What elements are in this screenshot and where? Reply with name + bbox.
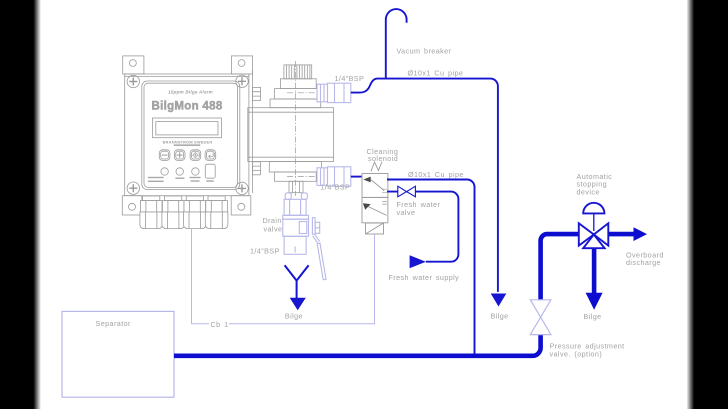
bilge arrow right bbox=[586, 293, 603, 310]
valve box lower bbox=[362, 197, 388, 222]
bracket plate edge bbox=[252, 70, 254, 193]
bottom step 2 bbox=[275, 172, 317, 181]
fresh water supply arrow bbox=[410, 255, 426, 268]
svg-text:Ø10x1 Cu pipe: Ø10x1 Cu pipe bbox=[408, 68, 464, 77]
spring symbol bbox=[371, 162, 382, 172]
svg-text:Bilge: Bilge bbox=[285, 312, 303, 321]
svg-text:Drain: Drain bbox=[263, 216, 282, 225]
LCD display bbox=[153, 118, 222, 138]
bilge arrow mid bbox=[491, 294, 507, 307]
svg-text:valve: valve bbox=[264, 225, 283, 234]
top step 1 bbox=[275, 89, 320, 99]
keypad button minus bbox=[159, 150, 170, 161]
svg-text:valve: valve bbox=[397, 208, 416, 217]
text small subtitle bbox=[174, 144, 201, 146]
svg-text:15ppm Bilge Alarm: 15ppm Bilge Alarm bbox=[168, 90, 213, 95]
bolt block bottom bbox=[253, 162, 261, 175]
svg-text:solenoid: solenoid bbox=[368, 154, 398, 163]
keypad button diamond bbox=[190, 150, 201, 161]
pipe cell bottom to solenoid bbox=[351, 176, 362, 178]
svg-text:Ø10x1 Cu pipe: Ø10x1 Cu pipe bbox=[408, 170, 464, 179]
svg-text:BilgMon 488: BilgMon 488 bbox=[151, 101, 222, 113]
front panel door bbox=[142, 81, 240, 190]
mounting tab top-left bbox=[123, 56, 144, 74]
LED pump bbox=[176, 168, 183, 175]
corner screw bottom-left bbox=[127, 182, 139, 194]
gland 1 bbox=[140, 196, 163, 229]
svg-text:Bilge: Bilge bbox=[491, 312, 509, 321]
bottom neck bbox=[289, 181, 303, 192]
pipe valve down to bilge bbox=[592, 248, 597, 293]
monitor panel texts bbox=[148, 90, 223, 183]
pipe solenoid to sample discharge bbox=[387, 180, 475, 354]
port ticks lower bbox=[382, 201, 387, 204]
svg-text:BRANNSTROM SWEDEN: BRANNSTROM SWEDEN bbox=[163, 139, 213, 144]
svg-text:Separator: Separator bbox=[96, 319, 132, 328]
corner screw top-left bbox=[127, 75, 139, 87]
pipe fresh water to solenoid bbox=[387, 192, 458, 262]
svg-text:Vacum breaker: Vacum breaker bbox=[397, 46, 452, 55]
vacuum breaker hook bbox=[386, 9, 407, 79]
centerline vertical bbox=[294, 61, 296, 196]
svg-text:1/4”BSP: 1/4”BSP bbox=[250, 246, 280, 255]
fresh water valve bbox=[398, 186, 416, 197]
LED alarm bbox=[161, 168, 168, 175]
handle block bbox=[312, 218, 315, 235]
pipe cell top to vacuum breaker run bbox=[351, 79, 498, 292]
mounting tab bottom-left bbox=[122, 196, 142, 215]
cable glands bbox=[140, 196, 228, 229]
IR window bbox=[205, 164, 215, 178]
corner screw bottom-right bbox=[236, 182, 248, 194]
handle lever bbox=[313, 235, 320, 243]
LED system bbox=[192, 168, 199, 175]
keypad button enter bbox=[205, 150, 216, 161]
pressure adjustment valve bbox=[530, 300, 551, 335]
drain Y to bilge bbox=[285, 265, 309, 298]
mounting tab top-right bbox=[231, 56, 252, 74]
main pipe separator to riser bbox=[174, 334, 541, 355]
svg-text:Bilge: Bilge bbox=[584, 312, 602, 321]
mounting plate bbox=[125, 74, 249, 196]
mounting tab bottom-right bbox=[231, 196, 251, 215]
band bbox=[283, 215, 309, 219]
bottom step 1 bbox=[269, 162, 321, 173]
bolt block top bbox=[253, 87, 261, 100]
centerline bottom fitting bbox=[287, 176, 360, 178]
ball housing bbox=[283, 219, 309, 236]
wing nut bbox=[285, 193, 291, 199]
compression fitting top bbox=[317, 83, 351, 102]
flow path lower bbox=[368, 207, 386, 216]
knob flange bbox=[280, 79, 316, 89]
svg-text:device: device bbox=[577, 187, 600, 196]
knurled knob bbox=[284, 65, 312, 79]
gland 4 bbox=[205, 196, 228, 229]
svg-text:1/4”BSP: 1/4”BSP bbox=[321, 183, 351, 192]
svg-text:Cb 1: Cb 1 bbox=[211, 320, 229, 329]
top step 2 bbox=[270, 99, 321, 108]
corner screw top-right bbox=[236, 75, 248, 87]
control cable Cb1 bbox=[192, 229, 375, 324]
pipe valve to overboard bbox=[608, 232, 634, 237]
overboard arrow bbox=[634, 227, 648, 241]
svg-text:1/4”BSP: 1/4”BSP bbox=[335, 74, 365, 83]
lower body bbox=[284, 236, 306, 254]
LED labels bbox=[148, 177, 164, 178]
centerline top fitting bbox=[287, 92, 360, 94]
port ticks upper bbox=[382, 189, 387, 193]
compression fitting bottom bbox=[317, 167, 351, 186]
cell cylinder bbox=[248, 108, 334, 162]
gland 2 bbox=[162, 196, 185, 229]
keypad button plus bbox=[174, 150, 185, 161]
svg-text:Fresh water supply: Fresh water supply bbox=[389, 273, 460, 282]
svg-text:valve. (option): valve. (option) bbox=[550, 350, 603, 359]
riser above valve to 3way valve bbox=[541, 234, 579, 300]
gland 3 bbox=[184, 196, 207, 229]
flow path upper bbox=[371, 180, 384, 191]
svg-text:discharge: discharge bbox=[626, 258, 661, 267]
coil bbox=[366, 223, 384, 234]
valve box upper bbox=[362, 174, 388, 198]
upper body bbox=[284, 199, 306, 215]
